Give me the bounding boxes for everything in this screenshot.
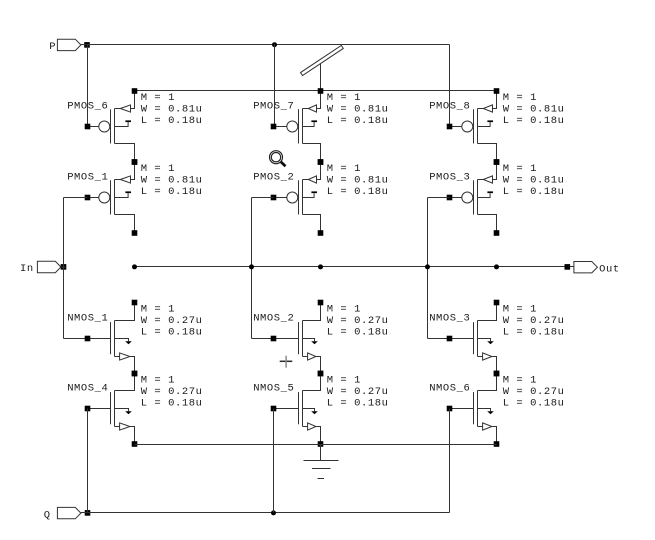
transistor NMOS_4 bbox=[85, 371, 138, 447]
wire source rail bbox=[135, 90, 497, 92]
wire P to PMOS_7 gate bbox=[274, 45, 276, 127]
wire Q to NMOS_6 gate bbox=[449, 409, 451, 513]
svg-text:NMOS_5: NMOS_5 bbox=[253, 383, 294, 395]
transistor PMOS_3 bbox=[447, 159, 500, 236]
node Out pin bbox=[565, 264, 571, 270]
wire output bus bbox=[135, 266, 568, 268]
junction Q/col2 bbox=[271, 510, 276, 515]
wire stage2 to PMOS_2 gate bbox=[252, 197, 274, 199]
svg-text:M = 1: M = 1 bbox=[503, 92, 537, 104]
wire stage3 to NMOS_3 gate bbox=[428, 338, 450, 340]
wire stage2 to NMOS_2 gate bbox=[252, 338, 274, 340]
svg-text:L = 0.18u: L = 0.18u bbox=[141, 115, 203, 127]
svg-text:W = 0.27u: W = 0.27u bbox=[503, 386, 565, 398]
wire stage2 input vertical bbox=[251, 198, 253, 339]
value label PMOS_1 M/W/L bbox=[141, 163, 203, 198]
svg-text:L = 0.18u: L = 0.18u bbox=[141, 397, 203, 409]
value label PMOS_6 M/W/L bbox=[141, 92, 203, 127]
transistor PMOS_6 bbox=[85, 88, 138, 165]
svg-text:W = 0.81u: W = 0.81u bbox=[503, 174, 565, 186]
wire Q to NMOS_5 gate bbox=[273, 409, 275, 513]
svg-text:PMOS_1: PMOS_1 bbox=[67, 172, 108, 184]
wire Q horizontal bbox=[81, 512, 450, 514]
svg-text:M = 1: M = 1 bbox=[327, 375, 361, 387]
port In bbox=[20, 261, 61, 275]
transistor NMOS_6 bbox=[447, 371, 500, 447]
port Q bbox=[44, 507, 81, 521]
node P pin bbox=[84, 42, 90, 48]
svg-text:W = 0.27u: W = 0.27u bbox=[327, 386, 389, 398]
value label PMOS_2 M/W/L bbox=[327, 163, 389, 198]
svg-text:W = 0.27u: W = 0.27u bbox=[503, 315, 565, 327]
wire P to PMOS_6 gate bbox=[87, 45, 89, 127]
value label NMOS_5 M/W/L bbox=[327, 375, 389, 410]
junction bus/col2 drain bbox=[318, 264, 323, 269]
svg-text:L = 0.18u: L = 0.18u bbox=[503, 397, 565, 409]
svg-text:Q: Q bbox=[44, 510, 51, 522]
svg-text:W = 0.81u: W = 0.81u bbox=[503, 103, 565, 115]
wire Out stub bbox=[567, 266, 574, 268]
transistor PMOS_8 bbox=[447, 88, 500, 165]
node In pin bbox=[61, 264, 67, 270]
svg-text:PMOS_2: PMOS_2 bbox=[253, 172, 294, 184]
wire Q to NMOS_4 gate bbox=[87, 409, 89, 513]
wire stage3 input vertical bbox=[427, 198, 429, 339]
wire stage3 to PMOS_3 gate bbox=[428, 197, 450, 199]
svg-text:M = 1: M = 1 bbox=[327, 92, 361, 104]
port P bbox=[49, 39, 81, 53]
svg-text:L = 0.18u: L = 0.18u bbox=[141, 186, 203, 198]
svg-text:M = 1: M = 1 bbox=[141, 92, 175, 104]
svg-text:W = 0.81u: W = 0.81u bbox=[327, 174, 389, 186]
value label NMOS_2 M/W/L bbox=[327, 304, 389, 339]
wire In to PMOS_1 gate bbox=[64, 197, 88, 199]
transistor NMOS_5 bbox=[271, 371, 324, 447]
svg-text:L = 0.18u: L = 0.18u bbox=[503, 186, 565, 198]
svg-text:P: P bbox=[49, 41, 56, 53]
value label NMOS_1 M/W/L bbox=[141, 304, 203, 339]
svg-text:PMOS_3: PMOS_3 bbox=[429, 172, 470, 184]
svg-text:M = 1: M = 1 bbox=[141, 163, 175, 175]
transistor PMOS_1 bbox=[85, 159, 138, 236]
svg-text:NMOS_3: NMOS_3 bbox=[429, 313, 470, 325]
svg-text:PMOS_7: PMOS_7 bbox=[253, 101, 294, 113]
wire patch stub col2 bbox=[320, 62, 322, 91]
svg-text:In: In bbox=[20, 263, 34, 275]
svg-text:L = 0.18u: L = 0.18u bbox=[327, 397, 389, 409]
svg-text:L = 0.18u: L = 0.18u bbox=[327, 326, 389, 338]
svg-text:L = 0.18u: L = 0.18u bbox=[503, 326, 565, 338]
ground bbox=[304, 445, 339, 479]
svg-text:W = 0.27u: W = 0.27u bbox=[327, 315, 389, 327]
wire In to NMOS_1 gate bbox=[64, 338, 88, 340]
value label NMOS_6 M/W/L bbox=[503, 375, 565, 410]
svg-text:NMOS_4: NMOS_4 bbox=[67, 383, 108, 395]
svg-text:W = 0.27u: W = 0.27u bbox=[141, 315, 203, 327]
zoom cursor (magnifier icon) bbox=[270, 151, 286, 167]
svg-text:M = 1: M = 1 bbox=[141, 375, 175, 387]
junction P/col2 bbox=[272, 42, 277, 47]
transistor NMOS_2 bbox=[271, 300, 324, 377]
junction bus/col1 drain bbox=[132, 264, 137, 269]
svg-text:W = 0.27u: W = 0.27u bbox=[141, 386, 203, 398]
junction bus/stage2 gate bbox=[249, 264, 254, 269]
svg-text:L = 0.18u: L = 0.18u bbox=[327, 115, 389, 127]
transistor PMOS_7 bbox=[271, 88, 324, 165]
patch cord (slash symbol) bbox=[300, 45, 343, 75]
port Out bbox=[574, 262, 620, 276]
junction bus/stage3 gate bbox=[425, 264, 430, 269]
wire P horizontal rail bbox=[81, 44, 450, 46]
svg-text:L = 0.18u: L = 0.18u bbox=[327, 186, 389, 198]
value label NMOS_4 M/W/L bbox=[141, 375, 203, 410]
svg-text:M = 1: M = 1 bbox=[141, 304, 175, 316]
wire P to PMOS_8 gate bbox=[449, 45, 451, 127]
transistor NMOS_3 bbox=[447, 300, 500, 377]
node Q pin bbox=[85, 510, 91, 516]
transistor PMOS_2 bbox=[271, 159, 324, 236]
svg-text:M = 1: M = 1 bbox=[503, 163, 537, 175]
svg-text:Out: Out bbox=[599, 264, 620, 276]
wire In vertical bbox=[63, 198, 65, 339]
svg-text:M = 1: M = 1 bbox=[327, 304, 361, 316]
transistor NMOS_1 bbox=[85, 300, 138, 377]
value label NMOS_3 M/W/L bbox=[503, 304, 565, 339]
value label PMOS_8 M/W/L bbox=[503, 92, 565, 127]
value label PMOS_3 M/W/L bbox=[503, 163, 565, 198]
value label PMOS_7 M/W/L bbox=[327, 92, 389, 127]
svg-text:M = 1: M = 1 bbox=[503, 304, 537, 316]
svg-text:M = 1: M = 1 bbox=[327, 163, 361, 175]
svg-text:W = 0.81u: W = 0.81u bbox=[141, 174, 203, 186]
svg-text:NMOS_1: NMOS_1 bbox=[67, 313, 108, 325]
svg-text:NMOS_6: NMOS_6 bbox=[429, 383, 470, 395]
svg-text:M = 1: M = 1 bbox=[503, 375, 537, 387]
svg-text:L = 0.18u: L = 0.18u bbox=[141, 326, 203, 338]
junction bus/col3 drain bbox=[494, 264, 499, 269]
crosshair cursor (+) bbox=[280, 356, 293, 368]
svg-text:PMOS_8: PMOS_8 bbox=[429, 101, 470, 113]
svg-text:PMOS_6: PMOS_6 bbox=[67, 101, 108, 113]
svg-text:L = 0.18u: L = 0.18u bbox=[503, 115, 565, 127]
svg-text:W = 0.81u: W = 0.81u bbox=[327, 103, 389, 115]
wire ground rail bbox=[135, 444, 497, 446]
wire In stub bbox=[61, 266, 67, 268]
svg-text:NMOS_2: NMOS_2 bbox=[253, 313, 294, 325]
svg-text:W = 0.81u: W = 0.81u bbox=[141, 103, 203, 115]
